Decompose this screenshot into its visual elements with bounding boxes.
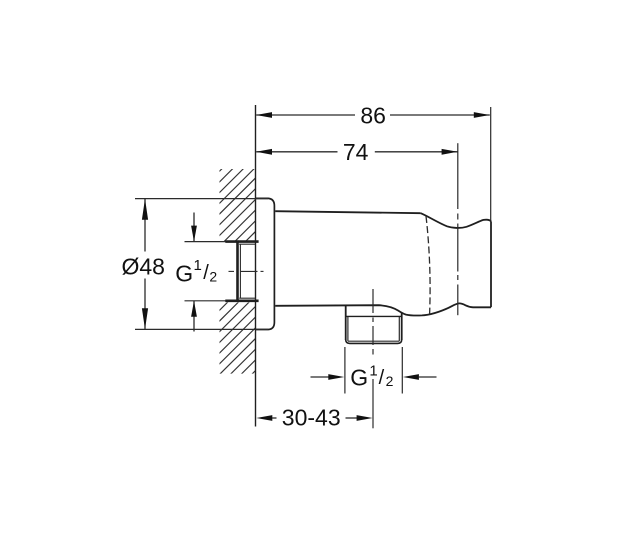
dimension 74	[256, 139, 458, 165]
escutcheon flange	[256, 198, 275, 329]
body tube top edge	[275, 211, 421, 213]
body bottom edge and holder cup bottom profile	[275, 303, 491, 315]
wall face line	[255, 105, 257, 427]
svg-text:2: 2	[209, 269, 217, 285]
svg-text:1: 1	[369, 362, 377, 379]
dimension diameter 48	[121, 199, 268, 330]
svg-text:Ø48: Ø48	[121, 253, 164, 279]
svg-text:30-43: 30-43	[282, 405, 341, 431]
svg-text:/: /	[203, 262, 209, 284]
svg-text:G: G	[175, 260, 193, 286]
dimension G1/2 outlet	[311, 347, 437, 394]
svg-text:2: 2	[386, 373, 394, 389]
threaded wall socket G1/2	[225, 240, 258, 302]
86 extension line right	[490, 107, 492, 221]
dimension 86	[256, 103, 490, 129]
svg-text:G: G	[350, 365, 368, 391]
dimension G1/2 wall inlet	[175, 213, 225, 332]
outlet center line	[372, 289, 374, 428]
holder cup center line / 74 extension	[457, 143, 459, 315]
svg-text:74: 74	[343, 139, 369, 165]
outlet nipple G1/2	[346, 306, 402, 344]
svg-text:86: 86	[360, 103, 386, 129]
svg-text:/: /	[379, 367, 385, 389]
transition dashed line	[426, 216, 430, 314]
socket center line	[229, 270, 264, 272]
holder cup top profile	[421, 213, 491, 228]
dimension 30-43	[256, 405, 372, 431]
holder cup right edge	[490, 221, 492, 307]
svg-text:1: 1	[194, 257, 202, 274]
